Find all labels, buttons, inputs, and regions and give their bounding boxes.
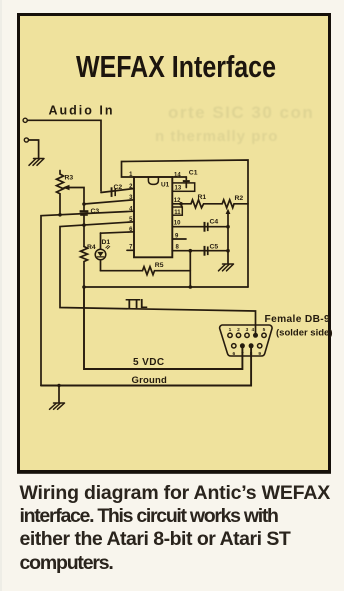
node C5 junction — [226, 249, 230, 253]
capacitor C3 — [80, 210, 89, 213]
wire pin2 (C2) — [101, 189, 134, 193]
LED D1 — [95, 249, 106, 260]
svg-text:R5: R5 — [155, 262, 164, 269]
wire pin14 stub — [172, 176, 186, 178]
node R3 bottom junction — [58, 213, 62, 217]
node ground stub junction — [57, 384, 60, 387]
node pin8 / R5 vertical junction — [189, 249, 193, 253]
wire audio-in to C2 — [27, 120, 101, 191]
wire pin1 to top rail — [122, 160, 249, 287]
capacitor C1 — [185, 177, 187, 180]
R2 wiper arrow — [227, 214, 229, 227]
wire pin9 stub — [172, 238, 186, 240]
wire ground line — [41, 346, 251, 386]
wire pin11 loop box — [172, 207, 182, 215]
DB-9 pin 5 — [262, 333, 266, 337]
svg-text:3: 3 — [246, 327, 249, 333]
svg-text:C5: C5 — [210, 243, 219, 250]
svg-text:Audio In: Audio In — [49, 104, 115, 118]
svg-text:Female DB-9: Female DB-9 — [265, 314, 331, 325]
resistor R3 (potentiometer) — [57, 171, 64, 215]
DB-9 pin 4 — [253, 333, 258, 338]
ground (audio input) — [29, 159, 44, 166]
wire pin8 (C5 row) — [172, 250, 228, 252]
DB-9 pin 7 — [240, 343, 245, 348]
resistor R2 (trimpot) — [222, 200, 248, 208]
DB-9 pin 3 — [245, 333, 249, 337]
svg-text:5 VDC: 5 VDC — [133, 357, 164, 368]
svg-text:7: 7 — [241, 351, 244, 357]
svg-text:10: 10 — [174, 220, 181, 226]
svg-text:(solder side): (solder side) — [276, 327, 333, 338]
svg-text:U1: U1 — [161, 182, 170, 189]
wire R5 vertical — [189, 251, 191, 287]
svg-text:2: 2 — [237, 327, 240, 333]
wire R2 arm down to ground — [227, 227, 229, 264]
caption text — [20, 482, 331, 575]
svg-text:n thermally pro: n thermally pro — [155, 128, 278, 145]
wire pin13 loop box — [172, 183, 194, 191]
svg-text:8: 8 — [250, 351, 253, 357]
wire 5V rail (y287) — [84, 286, 248, 288]
ground (bottom) — [50, 403, 65, 409]
resistor R1 — [191, 200, 222, 208]
R3 wiper arrow — [68, 188, 85, 211]
wire pin7 stub — [127, 249, 134, 251]
node R3 wiper / pin3 junction — [82, 202, 86, 206]
wire D1 bottom to R5 row — [100, 260, 102, 271]
wire pin12 to R1 — [172, 203, 191, 205]
capacitor C4 — [204, 222, 206, 232]
pin numbers right — [174, 172, 182, 250]
DB-9 pin numbers — [229, 327, 266, 357]
svg-text:R2: R2 — [235, 195, 244, 202]
DB-9 pin 2 — [236, 333, 240, 337]
node audio ground terminal — [24, 138, 28, 142]
svg-text:R3: R3 — [65, 175, 74, 182]
svg-text:1: 1 — [229, 327, 232, 333]
wire pin10 (C4 row) — [172, 226, 228, 228]
wire pin5 to TTL line — [60, 222, 256, 335]
ground (R2/C4/C5) — [219, 264, 234, 271]
node Audio In terminal — [23, 118, 27, 122]
wire audio ground — [29, 140, 39, 159]
resistor R4 — [81, 247, 88, 288]
node pin5 junction — [82, 223, 86, 227]
DB-9 pin 8 — [249, 343, 254, 348]
svg-text:R1: R1 — [198, 194, 207, 201]
svg-text:C4: C4 — [210, 218, 219, 225]
wire R4 down to 5VDC line — [84, 287, 242, 369]
svg-text:6: 6 — [232, 351, 235, 357]
node R5 vertical / rail junction — [189, 285, 193, 289]
svg-text:Ground: Ground — [132, 375, 168, 386]
node C4 junction — [226, 225, 230, 229]
wire C3 to R4 — [83, 216, 85, 247]
svg-text:C1: C1 — [189, 169, 198, 176]
DB-9 pin 1 — [228, 333, 232, 337]
svg-text:R4: R4 — [87, 244, 96, 251]
svg-text:TTL: TTL — [126, 297, 148, 311]
svg-text:D1: D1 — [102, 239, 111, 246]
DB-9 pin 6 — [232, 344, 236, 348]
DB-9 pin 9 — [258, 344, 262, 348]
capacitor C2 — [111, 187, 113, 197]
wire pin3 — [84, 200, 134, 204]
wire pin4 to left rail — [41, 211, 134, 385]
capacitor C5 — [204, 246, 206, 256]
svg-text:5: 5 — [263, 327, 266, 333]
svg-text:4: 4 — [251, 327, 254, 333]
svg-text:orte SIC 30 con: orte SIC 30 con — [168, 103, 314, 122]
resistor R5 — [101, 267, 191, 275]
connector J1 female DB-9 — [220, 325, 272, 356]
wire ground stub — [58, 386, 60, 404]
op-amp U1 (IC body) — [134, 177, 172, 257]
node R4 bottom junction — [82, 285, 86, 289]
node pin12/pin11 junction — [179, 202, 183, 206]
pin numbers left — [129, 172, 133, 250]
wire D1 top to pin6 — [100, 233, 102, 249]
svg-text:9: 9 — [258, 351, 261, 357]
wire pin6 — [101, 232, 135, 233]
svg-text:WEFAX Interface: WEFAX Interface — [76, 50, 276, 84]
